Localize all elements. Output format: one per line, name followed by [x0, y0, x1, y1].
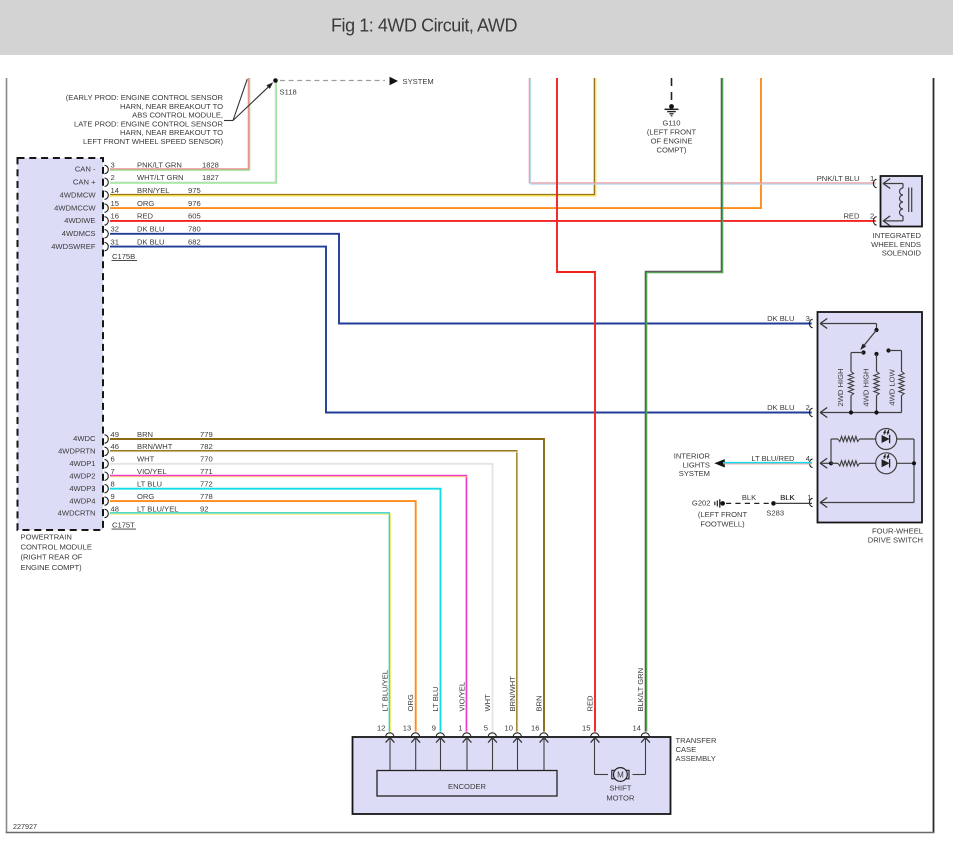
svg-text:770: 770: [200, 455, 213, 464]
svg-text:4WDSWREF: 4WDSWREF: [51, 242, 96, 251]
svg-text:8: 8: [111, 480, 115, 489]
svg-text:92: 92: [200, 504, 208, 513]
svg-text:PNK/LT BLU: PNK/LT BLU: [817, 174, 860, 183]
svg-text:G202: G202: [692, 499, 711, 508]
svg-text:LATE PROD: ENGINE CONTROL SENS: LATE PROD: ENGINE CONTROL SENSOR: [74, 119, 223, 128]
svg-text:WHT: WHT: [483, 694, 492, 712]
svg-text:772: 772: [200, 480, 213, 489]
svg-text:VIO/YEL: VIO/YEL: [457, 682, 466, 712]
svg-text:CASE: CASE: [676, 745, 697, 754]
svg-text:14: 14: [111, 186, 119, 195]
svg-text:ASSEMBLY: ASSEMBLY: [676, 754, 716, 763]
svg-text:CAN +: CAN +: [73, 178, 96, 187]
svg-text:BRN: BRN: [137, 430, 153, 439]
svg-text:BRN/WHT: BRN/WHT: [137, 442, 173, 451]
svg-text:779: 779: [200, 430, 213, 439]
svg-text:4WDCRTN: 4WDCRTN: [58, 509, 96, 518]
svg-text:COMPT): COMPT): [657, 145, 687, 154]
svg-text:32: 32: [111, 225, 119, 234]
svg-text:BLK: BLK: [742, 493, 756, 502]
svg-text:LEFT FRONT WHEEL SPEED SENSOR): LEFT FRONT WHEEL SPEED SENSOR): [83, 137, 223, 146]
svg-text:LT BLU/YEL: LT BLU/YEL: [380, 670, 389, 712]
svg-text:G110: G110: [662, 118, 680, 127]
svg-text:M: M: [617, 771, 624, 780]
svg-text:4WDMCCW: 4WDMCCW: [54, 203, 96, 212]
svg-text:SHIFT: SHIFT: [609, 783, 631, 792]
svg-text:780: 780: [188, 225, 201, 234]
svg-text:49: 49: [111, 430, 119, 439]
svg-text:SOLENOID: SOLENOID: [882, 248, 922, 257]
svg-text:CONTROL MODULE: CONTROL MODULE: [21, 543, 92, 552]
svg-text:ORG: ORG: [137, 492, 154, 501]
svg-text:INTERIOR: INTERIOR: [674, 451, 711, 460]
svg-text:ORG: ORG: [406, 694, 415, 711]
svg-text:BLK: BLK: [780, 493, 794, 502]
svg-text:48: 48: [111, 504, 119, 513]
svg-text:LT BLU/RED: LT BLU/RED: [751, 454, 795, 463]
svg-text:VIO/YEL: VIO/YEL: [137, 467, 167, 476]
svg-text:9: 9: [432, 724, 436, 733]
svg-text:WHT/LT GRN: WHT/LT GRN: [137, 173, 184, 182]
svg-text:DK BLU: DK BLU: [137, 237, 164, 246]
svg-text:LT BLU: LT BLU: [137, 480, 162, 489]
svg-text:4WD HIGH: 4WD HIGH: [862, 369, 871, 407]
svg-text:975: 975: [188, 186, 201, 195]
svg-text:ENCODER: ENCODER: [448, 782, 486, 791]
svg-text:ENGINE COMPT): ENGINE COMPT): [21, 563, 83, 572]
svg-text:1827: 1827: [202, 173, 219, 182]
svg-text:1828: 1828: [202, 160, 219, 169]
svg-text:227927: 227927: [13, 822, 37, 831]
svg-text:4WD LOW: 4WD LOW: [887, 369, 896, 406]
svg-text:POWERTRAIN: POWERTRAIN: [21, 533, 72, 542]
svg-text:46: 46: [111, 442, 119, 451]
svg-text:976: 976: [188, 199, 201, 208]
svg-text:ABS CONTROL MODULE,: ABS CONTROL MODULE,: [132, 111, 223, 120]
svg-text:OF ENGINE: OF ENGINE: [651, 136, 693, 145]
svg-text:SYSTEM: SYSTEM: [403, 77, 434, 86]
svg-text:BRN/WHT: BRN/WHT: [508, 676, 517, 712]
svg-text:RED: RED: [843, 212, 860, 221]
svg-text:BRN: BRN: [534, 695, 543, 711]
svg-text:5: 5: [484, 724, 488, 733]
svg-text:15: 15: [582, 724, 590, 733]
svg-text:4WDIWE: 4WDIWE: [64, 216, 95, 225]
svg-text:C175T: C175T: [112, 521, 135, 530]
svg-text:ORG: ORG: [137, 199, 154, 208]
svg-text:778: 778: [200, 492, 213, 501]
svg-text:LT BLU: LT BLU: [431, 686, 440, 711]
svg-text:C175B: C175B: [112, 252, 135, 261]
svg-text:4WDPRTN: 4WDPRTN: [58, 447, 95, 456]
svg-text:31: 31: [111, 237, 119, 246]
svg-text:3: 3: [111, 160, 115, 169]
svg-text:1: 1: [458, 724, 462, 733]
svg-text:782: 782: [200, 442, 213, 451]
svg-text:4WDMCW: 4WDMCW: [60, 190, 97, 199]
svg-text:2: 2: [111, 173, 115, 182]
svg-text:BLK/LT GRN: BLK/LT GRN: [636, 668, 645, 712]
svg-text:16: 16: [531, 724, 539, 733]
svg-text:4WDMCS: 4WDMCS: [62, 229, 96, 238]
svg-text:2WD HIGH: 2WD HIGH: [836, 369, 845, 407]
svg-text:FOUR-WHEEL: FOUR-WHEEL: [872, 527, 923, 536]
svg-text:(RIGHT REAR OF: (RIGHT REAR OF: [21, 553, 83, 562]
svg-text:605: 605: [188, 212, 201, 221]
svg-text:DK BLU: DK BLU: [767, 314, 794, 323]
svg-text:4WDP1: 4WDP1: [69, 459, 95, 468]
svg-text:PNK/LT GRN: PNK/LT GRN: [137, 160, 182, 169]
svg-text:(EARLY PROD: ENGINE CONTROL SE: (EARLY PROD: ENGINE CONTROL SENSOR: [66, 93, 224, 102]
svg-text:S283: S283: [766, 509, 784, 518]
svg-text:DK BLU: DK BLU: [137, 225, 164, 234]
svg-text:13: 13: [403, 724, 411, 733]
svg-text:WHT: WHT: [137, 455, 155, 464]
svg-text:CAN -: CAN -: [75, 165, 96, 174]
svg-text:12: 12: [377, 724, 385, 733]
svg-text:4WDC: 4WDC: [73, 434, 96, 443]
svg-text:LIGHTS: LIGHTS: [683, 460, 710, 469]
svg-text:S118: S118: [280, 88, 297, 97]
svg-text:4WDP2: 4WDP2: [69, 471, 95, 480]
svg-text:HARN, NEAR BREAKOUT TO: HARN, NEAR BREAKOUT TO: [120, 102, 223, 111]
svg-text:HARN, NEAR BREAKOUT TO: HARN, NEAR BREAKOUT TO: [120, 128, 223, 137]
svg-text:771: 771: [200, 467, 213, 476]
svg-text:BRN/YEL: BRN/YEL: [137, 186, 170, 195]
svg-text:SYSTEM: SYSTEM: [679, 469, 710, 478]
svg-text:(LEFT FRONT: (LEFT FRONT: [647, 127, 697, 136]
svg-text:9: 9: [111, 492, 115, 501]
svg-text:7: 7: [111, 467, 115, 476]
svg-text:4WDP4: 4WDP4: [69, 496, 95, 505]
svg-text:(LEFT FRONT: (LEFT FRONT: [698, 510, 748, 519]
svg-text:682: 682: [188, 237, 201, 246]
svg-text:6: 6: [111, 455, 115, 464]
svg-text:RED: RED: [137, 212, 154, 221]
svg-text:15: 15: [111, 199, 119, 208]
svg-text:MOTOR: MOTOR: [606, 794, 635, 803]
svg-text:16: 16: [111, 212, 119, 221]
svg-text:DRIVE SWITCH: DRIVE SWITCH: [868, 536, 923, 545]
svg-text:14: 14: [633, 724, 641, 733]
svg-text:TRANSFER: TRANSFER: [676, 736, 717, 745]
svg-text:RED: RED: [585, 695, 594, 712]
svg-text:DK BLU: DK BLU: [767, 403, 794, 412]
svg-text:10: 10: [505, 724, 513, 733]
svg-text:FOOTWELL): FOOTWELL): [700, 520, 745, 529]
svg-text:4WDP3: 4WDP3: [69, 484, 95, 493]
svg-text:Fig 1: 4WD Circuit, AWD: Fig 1: 4WD Circuit, AWD: [331, 16, 517, 36]
svg-text:LT BLU/YEL: LT BLU/YEL: [137, 504, 179, 513]
